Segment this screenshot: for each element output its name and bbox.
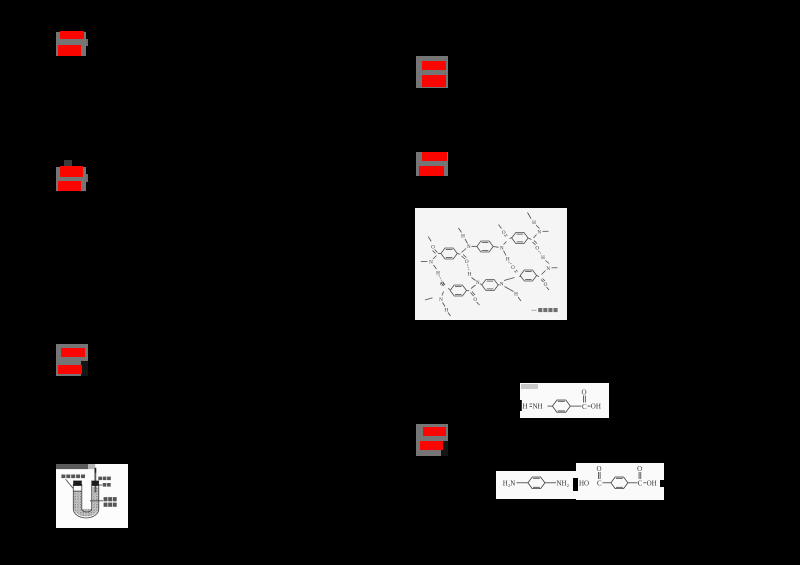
svg-text:H: H bbox=[468, 271, 472, 277]
svg-text:O: O bbox=[596, 465, 601, 473]
svg-text:N: N bbox=[467, 244, 471, 250]
svg-text:N: N bbox=[500, 281, 504, 287]
svg-text:H: H bbox=[436, 270, 440, 276]
svg-text:N: N bbox=[429, 259, 433, 265]
svg-text:C: C bbox=[596, 479, 601, 487]
svg-text:H: H bbox=[461, 233, 465, 239]
svg-text:H: H bbox=[506, 256, 510, 262]
svg-text:O: O bbox=[582, 389, 587, 397]
svg-text:O: O bbox=[431, 244, 435, 250]
svg-text:N: N bbox=[500, 245, 504, 251]
svg-text:H₂N: H₂N bbox=[503, 479, 516, 487]
svg-text:H: H bbox=[532, 220, 536, 226]
svg-text:C: C bbox=[637, 479, 642, 487]
svg-text:H: H bbox=[514, 292, 518, 298]
svg-text:O: O bbox=[544, 282, 548, 288]
svg-text:N: N bbox=[546, 266, 550, 272]
svg-text:O: O bbox=[465, 259, 469, 265]
svg-text:N: N bbox=[537, 229, 541, 235]
svg-text:N: N bbox=[439, 297, 443, 303]
svg-text:NH: NH bbox=[533, 403, 543, 411]
svg-text:O: O bbox=[440, 281, 444, 287]
svg-text:O: O bbox=[511, 265, 515, 271]
svg-text:NH₂: NH₂ bbox=[556, 479, 569, 487]
svg-text:OH: OH bbox=[646, 479, 656, 487]
svg-text:HO: HO bbox=[579, 479, 589, 487]
svg-text:O: O bbox=[473, 297, 477, 303]
svg-text:O: O bbox=[637, 465, 642, 473]
svg-text:OH: OH bbox=[591, 403, 601, 411]
svg-text:N: N bbox=[476, 280, 480, 286]
svg-text:H: H bbox=[541, 255, 545, 261]
svg-text:O: O bbox=[502, 230, 506, 236]
svg-text:C: C bbox=[582, 403, 587, 411]
svg-text:H: H bbox=[523, 403, 528, 411]
svg-text:H: H bbox=[444, 307, 448, 313]
svg-text:O: O bbox=[535, 245, 539, 251]
